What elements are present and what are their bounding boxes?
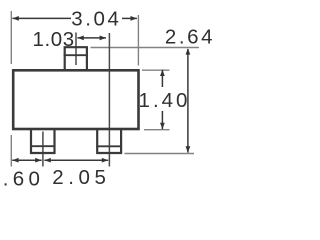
- svg-text:.60: .60: [3, 168, 44, 191]
- svg-text:1.03: 1.03: [32, 28, 74, 51]
- svg-text:1.40: 1.40: [139, 89, 191, 112]
- svg-text:3.04: 3.04: [71, 8, 121, 31]
- svg-text:2.05: 2.05: [52, 166, 110, 189]
- svg-text:2.64: 2.64: [165, 25, 215, 48]
